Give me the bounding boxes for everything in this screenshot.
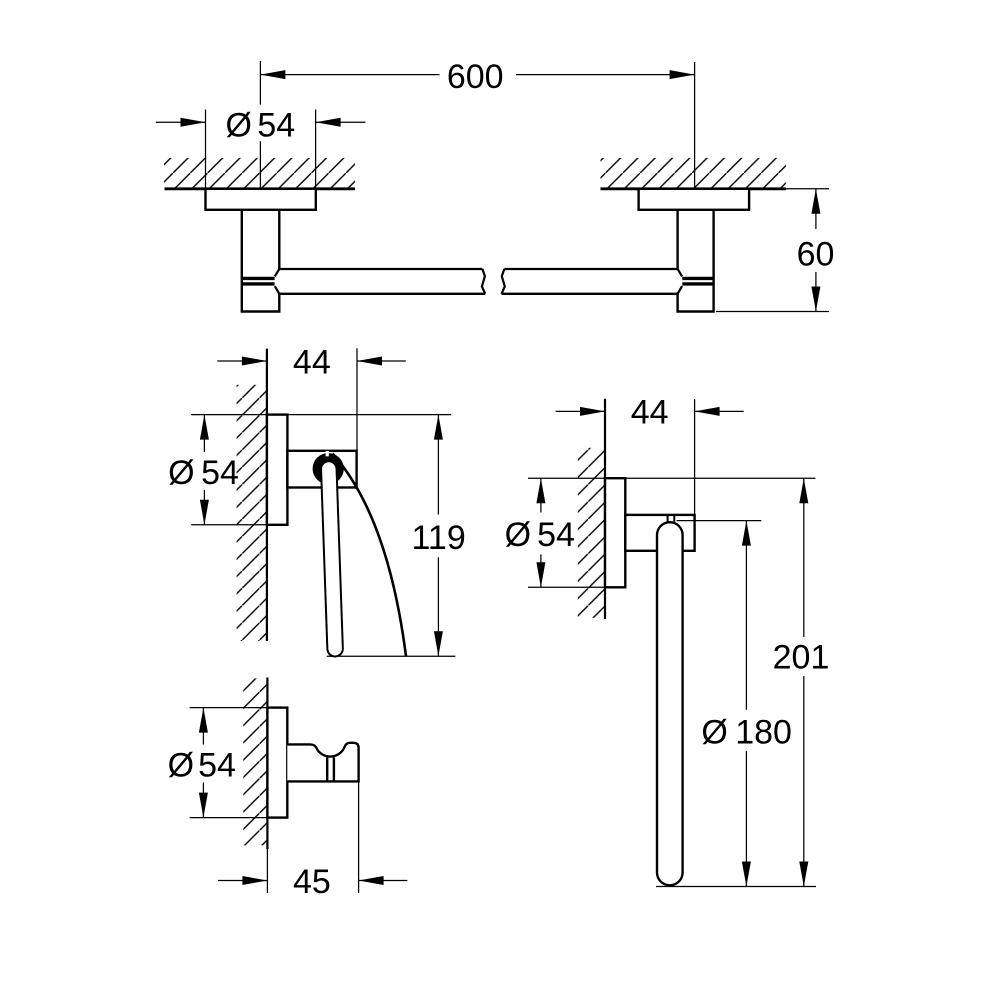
dim d54 arrow up [199, 708, 208, 733]
svg-text:119: 119 [412, 519, 466, 557]
bar right piece bottom edge [502, 293, 678, 295]
hook center line left [326, 757, 328, 781]
svg-text:54: 54 [257, 106, 295, 144]
bar left piece top edge [279, 268, 482, 270]
extension line d54 right [315, 110, 317, 189]
dim 600 line left segment [260, 74, 439, 76]
dim d54 line upper [202, 708, 204, 745]
right wall extension to dim 60 [786, 188, 829, 190]
svg-text:54: 54 [201, 454, 239, 492]
dim 600 line right segment [516, 74, 695, 76]
flange [605, 478, 625, 587]
flange [267, 415, 288, 525]
ring outline [656, 535, 684, 873]
dim d54 line lower [202, 783, 204, 818]
wall line [604, 399, 606, 619]
dim d54 line upper [540, 478, 542, 512]
d54 bottom extension line [190, 817, 268, 819]
bar right piece top edge [504, 268, 677, 270]
wall hatch [237, 385, 267, 641]
center line left mount [259, 61, 261, 192]
dim d54 arrow up [536, 478, 545, 503]
left post groove lower band [242, 282, 275, 285]
dim d54 arrow up [200, 415, 209, 440]
wall line [266, 678, 268, 850]
dim 600 arrow right [670, 70, 695, 79]
dim d180 arrow down [742, 862, 751, 887]
dim d54 arrow down [536, 562, 545, 587]
top extension line [528, 477, 816, 479]
bar right piece break line [502, 269, 505, 294]
dim 44 arrow right [357, 360, 406, 362]
roller arm core [329, 469, 335, 649]
bar left piece bottom edge [279, 293, 485, 295]
wall hatch [243, 678, 267, 845]
right post [676, 210, 714, 312]
svg-text:44: 44 [293, 344, 331, 382]
d180 top extension line [677, 520, 762, 522]
dim 119 arrow up [434, 415, 443, 440]
extension line 44 right [356, 348, 358, 451]
dim 45 arrow right [359, 880, 408, 882]
dim 60 arrow up [811, 189, 820, 214]
svg-text:Ø: Ø [168, 747, 194, 785]
dim 119 line lower [437, 557, 439, 656]
right post groove lower band [682, 282, 713, 285]
dim 600 arrow left [260, 70, 285, 79]
wall line [266, 349, 268, 641]
dim d180 line lower [745, 751, 747, 887]
dim 45 arrow left [218, 880, 268, 882]
svg-text:60: 60 [797, 235, 835, 273]
right post chamfer upper [678, 269, 683, 277]
dim 119 arrow down [434, 631, 443, 656]
post [287, 451, 356, 488]
flange [267, 708, 287, 818]
left wall hatch [164, 158, 355, 189]
roller arm outline [329, 469, 335, 649]
hook center line right [333, 757, 335, 781]
left post chamfer upper [275, 269, 280, 277]
bottom extension line [656, 886, 816, 888]
dim d54 top arrow left [156, 121, 206, 123]
dim 60 line upper [815, 189, 817, 229]
wall hatch [578, 448, 605, 618]
d54 bottom extension line [191, 524, 267, 526]
dim 44 arrow left [217, 360, 267, 362]
dim 60 bottom extension line [716, 311, 829, 313]
right flange [639, 189, 750, 210]
dim d54 top arrow right [316, 121, 366, 123]
dim d54 line lower [540, 554, 542, 587]
top extension line [191, 414, 451, 416]
pivot pin left [667, 515, 669, 522]
svg-text:54: 54 [198, 747, 236, 785]
dim d180 line upper [745, 521, 747, 710]
bottom extension line [327, 655, 456, 657]
extension line d54 left [205, 110, 207, 189]
right wall hatch [601, 158, 786, 189]
bar left piece break line [482, 269, 485, 294]
d54 top extension line [190, 707, 268, 709]
dim 44 arrow left [556, 410, 605, 412]
pivot boss [313, 453, 344, 484]
right wall line [601, 187, 786, 190]
svg-text:44: 44 [631, 393, 669, 431]
pivot pin right [673, 515, 675, 522]
svg-text:54: 54 [537, 516, 575, 554]
left flange [206, 189, 316, 210]
right post groove upper band [682, 277, 713, 280]
dim d54 arrow down [200, 500, 209, 525]
left post groove upper band [242, 277, 275, 280]
svg-text:45: 45 [293, 863, 331, 901]
hook right edge extension to dim 45 [358, 781, 360, 893]
dim d54 arrow down [199, 793, 208, 818]
pivot slot [326, 451, 329, 457]
d54 bottom extension line [528, 586, 625, 588]
svg-text:Ø: Ø [701, 714, 727, 752]
svg-text:Ø: Ø [168, 454, 194, 492]
svg-text:600: 600 [447, 58, 504, 96]
dim 119 line upper [437, 415, 439, 515]
hook body [287, 743, 358, 782]
dim 201 line upper [803, 478, 805, 637]
svg-text:201: 201 [773, 639, 830, 677]
post [625, 515, 694, 551]
dim d54 line upper [203, 415, 205, 452]
extension line 600 right [694, 62, 696, 189]
wall extension to dim 45 [266, 849, 268, 893]
dim 60 arrow down [811, 287, 820, 312]
spring wire [333, 454, 407, 657]
dim 201 arrow up [799, 478, 808, 503]
dim 44 arrow right [695, 410, 744, 412]
dim d54 line lower [203, 490, 205, 525]
ring core [658, 535, 681, 873]
dim d180 arrow up [742, 521, 751, 546]
left post chamfer lower [275, 286, 280, 294]
svg-text:Ø: Ø [505, 516, 531, 554]
left post [241, 210, 281, 312]
svg-text:Ø: Ø [226, 106, 252, 144]
dim 201 arrow down [799, 862, 808, 887]
right post chamfer lower [678, 286, 683, 294]
dim 60 line lower [815, 272, 817, 312]
left wall line [165, 187, 356, 190]
dim 201 line lower [803, 676, 805, 886]
svg-text:180: 180 [735, 714, 792, 752]
extension line 44 right [694, 399, 696, 515]
